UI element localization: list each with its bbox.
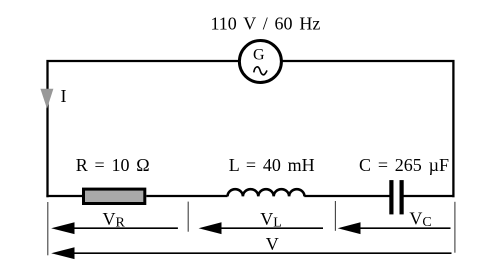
svg-text:R = 10 Ω: R = 10 Ω — [76, 155, 150, 175]
svg-text:G: G — [253, 47, 265, 64]
svg-text:I: I — [61, 86, 67, 106]
svg-text:V: V — [266, 234, 279, 254]
svg-text:C = 265 µF: C = 265 µF — [359, 155, 449, 175]
svg-text:110 V / 60 Hz: 110 V / 60 Hz — [210, 14, 320, 34]
svg-text:L = 40 mH: L = 40 mH — [229, 155, 315, 175]
